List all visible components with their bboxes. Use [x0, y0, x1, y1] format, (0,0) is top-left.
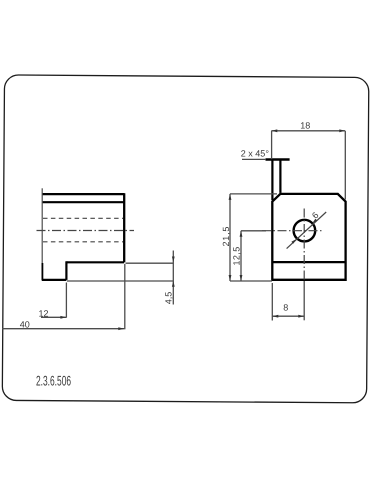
- 21,5 dimension line: [229, 194, 231, 281]
- hole circle: [294, 220, 316, 242]
- 4,5 arrow lower: [172, 281, 175, 287]
- 8 arrow left: [272, 315, 278, 318]
- 40 arrow: [118, 327, 124, 330]
- 12,5 arrow top: [240, 231, 243, 237]
- dimension 21,5: [230, 194, 277, 281]
- 8 left extension line: [271, 283, 273, 321]
- left view: right edge: [123, 193, 125, 262]
- 4,5 lower extension line: [67, 280, 174, 282]
- left view: step horizontal edge: [66, 261, 124, 263]
- 21,5 arrow bottom: [229, 275, 232, 281]
- 12 arrow: [60, 316, 66, 319]
- 4,5 upper extension line: [126, 262, 174, 264]
- 12 extension line: [65, 283, 67, 318]
- 21,5 arrow top: [229, 194, 232, 200]
- chamfer leader line: [242, 158, 266, 160]
- svg-text:18: 18: [300, 120, 310, 130]
- dimension 12,5: [241, 231, 266, 281]
- 12,5 dimension line: [240, 231, 242, 281]
- 18 arrow left: [271, 129, 277, 132]
- 8 dimension line: [272, 315, 304, 317]
- dimension 4,5: [67, 251, 174, 305]
- left view: centerline: [37, 230, 135, 232]
- dimension 12: [41, 283, 66, 318]
- 12,5 hole-center extension line: [241, 230, 266, 232]
- hole diameter leader: [287, 212, 327, 249]
- front view: step line: [272, 261, 345, 263]
- diameter arrow upper: [312, 219, 317, 224]
- tab top bar: [266, 158, 290, 160]
- svg-text:21,5: 21,5: [221, 226, 231, 247]
- horizontal centerline (dash-dot through hole): [262, 230, 322, 232]
- vertical centerline extension below part: [303, 281, 305, 320]
- svg-text:2 x 45°: 2 x 45°: [241, 149, 270, 159]
- 40 dimension line: [2, 328, 124, 330]
- svg-text:12,5: 12,5: [232, 246, 242, 265]
- svg-text:2.3.6.506: 2.3.6.506: [36, 372, 71, 388]
- left view: step vertical edge: [65, 261, 67, 280]
- left view: hidden hole line lower: [43, 241, 123, 243]
- left view: second edge (plate underside): [42, 201, 124, 203]
- dimension 8: [272, 283, 304, 321]
- 12,5 arrow bottom: [240, 275, 243, 281]
- 18 right extension line: [344, 131, 346, 200]
- 4,5 arrow upper: [172, 257, 175, 263]
- chamfer tab detail: [242, 159, 290, 200]
- left view: hidden hole line upper: [43, 217, 123, 219]
- 21,5 / 12,5 bottom extension line: [230, 280, 272, 282]
- dimension 40: [2, 264, 125, 329]
- svg-text:4,5: 4,5: [163, 292, 173, 305]
- svg-text:8: 8: [283, 302, 288, 312]
- svg-text:12: 12: [39, 308, 49, 318]
- 12 dimension line: [41, 316, 66, 318]
- 18 dimension line: [271, 130, 345, 132]
- tab right edge: [279, 160, 281, 193]
- left view: left edge (thin): [41, 188, 43, 280]
- left view: left edge lower thick part: [41, 263, 43, 281]
- 18 left extension line: [271, 131, 273, 159]
- svg-text:40: 40: [20, 319, 30, 329]
- 4,5 dimension line: [172, 251, 174, 305]
- 40 right extension line: [124, 264, 126, 329]
- tab left edge: [271, 160, 273, 201]
- dimension 18: [271, 131, 345, 200]
- 21,5 top extension line: [230, 193, 277, 195]
- diameter arrow lower: [291, 239, 296, 244]
- left view: top edge: [42, 193, 124, 195]
- vertical centerline (dash-dot through hole): [303, 209, 305, 282]
- drawing frame: [2, 75, 369, 403]
- 8 arrow right: [298, 315, 304, 318]
- front view: outline with chamfered top corners: [272, 194, 345, 280]
- 18 arrow right: [339, 129, 345, 132]
- left view: bottom edge: [42, 279, 66, 281]
